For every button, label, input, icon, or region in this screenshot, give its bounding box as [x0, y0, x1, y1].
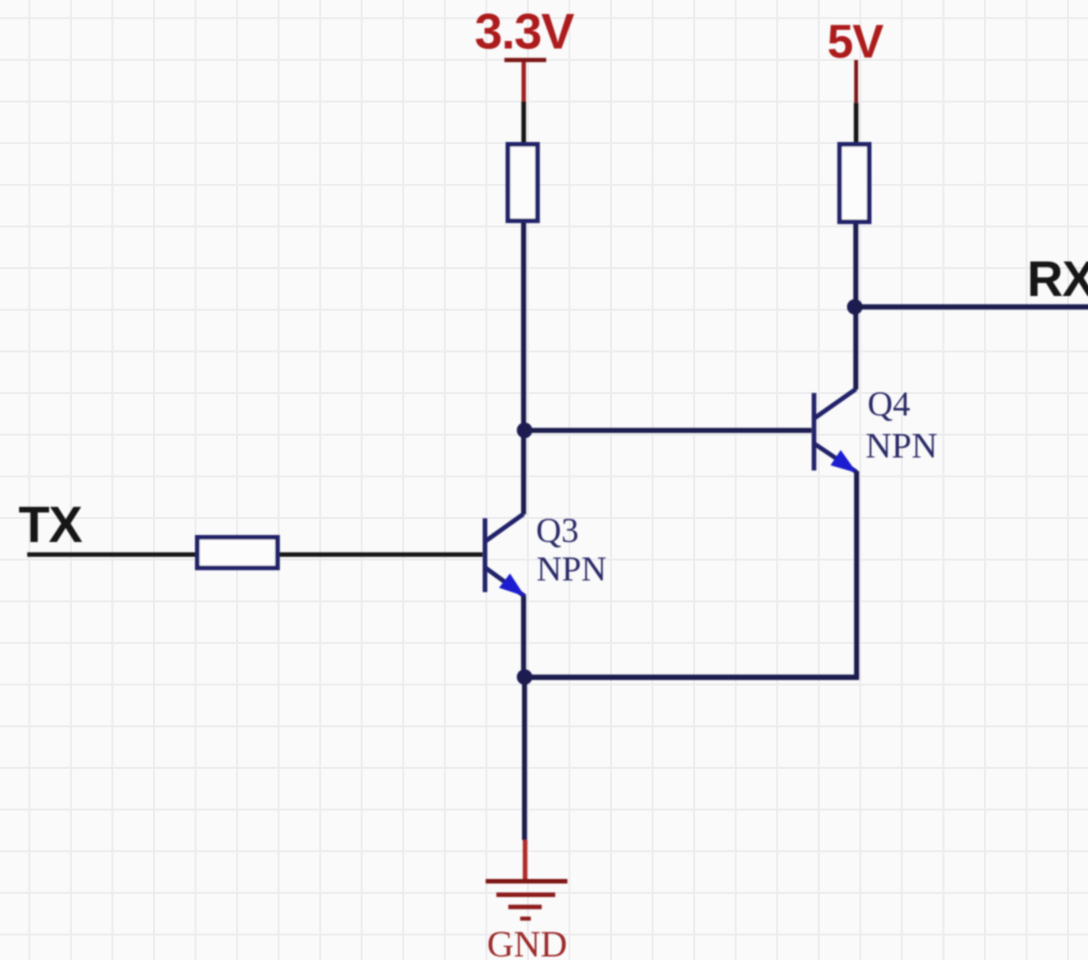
wire node B to ground navy [522, 677, 527, 840]
wire node RX to Q4 collector [853, 307, 858, 390]
transistor Q3 [485, 514, 525, 597]
wire TX to R3 [27, 552, 195, 557]
wire 3.3V stem black [521, 102, 526, 143]
ground symbol bar 4 [520, 917, 531, 921]
svg-text:GND: GND [487, 925, 567, 960]
svg-text:Q3: Q3 [536, 511, 579, 550]
ground symbol bar 2 [496, 893, 555, 898]
node B junction dot [517, 669, 533, 685]
svg-text:Q4: Q4 [868, 385, 911, 424]
svg-text:3.3V: 3.3V [475, 3, 576, 59]
wire node B to Q4 emitter (horizontal) [525, 675, 860, 680]
wire Q3 emitter to node B [521, 596, 526, 677]
wire R3 to Q3 base [280, 552, 483, 557]
svg-text:TX: TX [19, 496, 83, 553]
wire node A to Q4 base [525, 428, 812, 433]
ground symbol bar 3 [508, 905, 541, 910]
svg-text:NPN: NPN [537, 550, 607, 589]
node RX junction dot [847, 299, 863, 315]
wire ground stem red [523, 840, 528, 880]
wire RX out [855, 304, 1088, 309]
transistor Q4 emitter arrow [831, 450, 858, 473]
wire 5V stem black [854, 103, 859, 143]
power symbol 3.3V bar [504, 58, 546, 62]
ground symbol bar 1 [486, 879, 568, 884]
svg-text:NPN: NPN [866, 426, 938, 466]
node A junction dot [517, 423, 533, 439]
wire R2 to node RX [853, 224, 858, 307]
resistor R2 5V pull-up [840, 144, 870, 222]
resistor R3 series TX [197, 537, 277, 568]
svg-text:5V: 5V [827, 14, 884, 67]
svg-text:RX: RX [1027, 251, 1088, 307]
wire Q4 emitter down (vertical) [854, 471, 859, 677]
wire 5V stem red [854, 60, 858, 103]
transistor Q4 [814, 389, 857, 472]
wire 3.3V stem red [522, 62, 526, 102]
resistor R1 3.3V pull-up [508, 144, 538, 221]
transistor Q3 emitter arrow [499, 574, 525, 597]
wire R1 to node A [521, 223, 526, 515]
